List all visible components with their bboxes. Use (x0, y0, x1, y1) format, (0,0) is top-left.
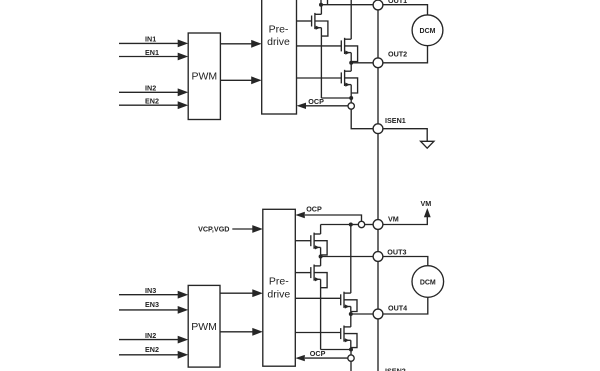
chip edge pin rail (377, 0, 379, 371)
wire VM pin to VM supply arrow (383, 217, 427, 225)
svg-text:IN2: IN2 (145, 331, 156, 340)
wire gate Q3 (297, 77, 342, 79)
pin OUT1 (373, 0, 383, 10)
comparator bubble OCP ch2 low (348, 355, 354, 361)
wire OCP feedback ch2 low (305, 357, 348, 359)
wire OUT3 node to OUT3 pin (321, 256, 374, 258)
svg-text:ISEN1: ISEN1 (385, 116, 406, 125)
wire EN2 input (119, 104, 178, 106)
wire EN3 input (channel 2) (119, 309, 178, 311)
wire EN1 input (119, 56, 178, 58)
wire OUT4 node to OUT4 pin (351, 313, 373, 315)
wire IN2 input (channel 2) (119, 339, 178, 341)
svg-text:DCM: DCM (420, 28, 436, 35)
wire gate Q7 (295, 332, 340, 334)
block PWM (channel 1) (188, 33, 220, 120)
wire VM node to OCP bubble 2a (351, 224, 359, 226)
node OUT4 junction (349, 312, 353, 316)
transistor Q7 (low-side D) (341, 326, 357, 348)
svg-text:EN2: EN2 (145, 345, 159, 354)
svg-text:ISEN2: ISEN2 (385, 367, 406, 371)
transistor Q5 (low-side C) (311, 265, 327, 288)
wire VCP,VGD input (232, 228, 252, 230)
wire EN2 input (channel 2) (119, 354, 178, 356)
svg-text:OUT2: OUT2 (388, 50, 407, 59)
wire gate Q4 (295, 240, 311, 242)
wire Q5 drain to OUT3 node (320, 257, 322, 266)
svg-text:IN1: IN1 (145, 35, 156, 44)
transistor Q3 (low-side B) (341, 70, 357, 93)
svg-text:IN3: IN3 (145, 286, 156, 295)
wire Q6 source to OUT4 node (350, 307, 352, 315)
transistor Q1 (low-side A) (312, 13, 328, 36)
wire OCP bubble 2 down to ISEN2 (cut off) (350, 361, 352, 371)
svg-text:IN2: IN2 (145, 84, 156, 93)
transistor Q6 (high-side D) (341, 292, 357, 312)
svg-text:Pre-: Pre- (269, 275, 289, 287)
pin OUT4 (373, 309, 383, 319)
wire OCP bubble to ISEN1 corner (351, 109, 373, 129)
wire OCP feedback ch1 (306, 105, 348, 107)
comparator bubble OCP ch2 high (358, 221, 364, 227)
svg-text:OCP: OCP (308, 97, 324, 106)
pin OUT2 (373, 58, 383, 68)
wire gate Q5 (295, 272, 311, 274)
wire Q2 source to OUT2 node (350, 53, 352, 63)
wire gate Q2 (297, 45, 342, 47)
wire sense rail 2 horizontal (321, 349, 351, 351)
svg-text:OUT4: OUT4 (388, 304, 407, 313)
wire OUT1 node to OUT1 pin (321, 4, 373, 6)
wire Q3 drain to OUT2 node (350, 63, 352, 71)
transistor Q4 (high-side C) (311, 233, 327, 255)
svg-text:OCP: OCP (306, 204, 322, 213)
ground symbol (421, 141, 434, 148)
wire gate Q1 (297, 20, 312, 22)
wire Q4 source to OUT3 node (320, 247, 322, 256)
VM supply arrow (424, 208, 431, 217)
wire sense rail horizontal (321, 97, 351, 99)
svg-text:EN2: EN2 (145, 97, 159, 106)
wire PWM2 to Pre-drive 2a (220, 292, 253, 294)
wire sense node 2 to OCP bubble (350, 350, 352, 356)
wire Q0 source stub (cut off) (320, 0, 322, 5)
wire IN2 input (119, 91, 178, 93)
wire PWM to Pre-drive 1b (220, 79, 251, 81)
svg-text:EN1: EN1 (145, 48, 159, 57)
wire OUT3 to motor 2 (383, 257, 428, 266)
svg-text:drive: drive (267, 289, 290, 301)
node sense junction ch2 (349, 348, 353, 352)
pin ISEN1 (373, 124, 383, 134)
svg-text:PWM: PWM (191, 321, 217, 333)
wire IN1 input (119, 42, 178, 44)
wire ISEN1 to ground (383, 129, 427, 142)
wire Q7 source to sense node 2 (350, 340, 352, 349)
wire OUT2 to motor 1 (383, 46, 428, 63)
wire Q6 drain up to VM node (350, 225, 352, 294)
wire OCP feedback ch2 high (305, 215, 362, 221)
wire Q1 drain to OUT1 node (320, 5, 322, 15)
svg-text:Pre-: Pre- (269, 24, 289, 36)
wire Q7 drain to OUT4 node (350, 314, 352, 327)
svg-text:VCP,VGD: VCP,VGD (198, 224, 229, 233)
wire Q5 source down to sense rail 2 (320, 279, 322, 349)
svg-text:OCP: OCP (310, 349, 326, 358)
svg-text:EN3: EN3 (145, 300, 159, 309)
svg-text:VM: VM (421, 199, 432, 208)
wire OUT4 to motor 2 (383, 297, 428, 314)
wire IN3 input (channel 2) (119, 294, 178, 296)
svg-text:VM: VM (388, 215, 399, 224)
wire OUT1 to motor 1 (383, 5, 428, 15)
wire OUT2 node to OUT2 pin (351, 62, 373, 64)
block Pre-drive (channel 1, cut off at top) (262, 0, 297, 114)
wire sense node to OCP bubble (350, 98, 352, 103)
node OUT1 junction (319, 3, 323, 7)
wire Q3 source to sense node (350, 85, 352, 98)
motor DCM 2 (412, 266, 444, 298)
wire Q1 source down to sense rail (320, 28, 322, 98)
pin OUT3 (373, 252, 383, 262)
wire PWM2 to Pre-drive 2b (220, 331, 253, 333)
wire Q4 drain up to VM node (320, 225, 322, 235)
svg-text:DCM: DCM (420, 279, 436, 286)
block Pre-drive (channel 2) (263, 209, 296, 366)
node OUT2 junction (349, 61, 353, 65)
block PWM (channel 2) (188, 285, 220, 367)
node VM junction (349, 223, 353, 227)
node OUT3 junction (319, 255, 323, 259)
svg-text:drive: drive (267, 36, 290, 48)
pin VM (373, 220, 383, 230)
wire Q0 body bracket stub (cut off) (327, 0, 329, 5)
wire PWM to Pre-drive 1a (220, 43, 251, 45)
svg-text:OUT3: OUT3 (387, 247, 406, 256)
node sense junction ch1 (349, 96, 353, 100)
svg-text:PWM: PWM (191, 71, 217, 83)
wire Q2 drain up to VM rail (cut off) (350, 0, 352, 39)
wire OCP bubble to VM pin (365, 224, 373, 226)
comparator bubble OCP ch1 (348, 103, 354, 109)
transistor Q2 (high-side B) (341, 38, 357, 62)
motor DCM 1 (412, 15, 443, 46)
wire gate Q6 (295, 297, 340, 299)
wire VM node rail (321, 224, 351, 226)
